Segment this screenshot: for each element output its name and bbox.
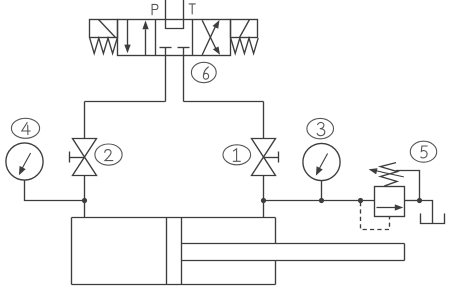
valve 6 centre position: blocked port A	[160, 48, 172, 56]
wire right branch down to valve 1	[263, 102, 265, 140]
wire left cylinder port	[84, 201, 86, 218]
label 5	[410, 141, 436, 162]
relief valve 5 spring	[380, 163, 397, 186]
wire A from valve down	[165, 56, 167, 102]
spring right	[231, 38, 259, 53]
valve 6 left position: arrow down	[124, 20, 130, 53]
relief valve 5 body	[375, 187, 405, 217]
junction dot left	[82, 198, 87, 203]
wire B from valve down	[183, 56, 185, 102]
directional valve 6 body	[118, 20, 231, 56]
pressure gauge 3	[303, 143, 340, 180]
wire gauge 3 down	[321, 181, 323, 201]
shut-off valve 1	[252, 139, 279, 176]
port P line	[165, 0, 167, 29]
junction dot valve 1	[261, 198, 266, 203]
wire left branch down to valve 2	[84, 102, 86, 140]
label 1	[223, 145, 251, 165]
valve 6 right position: crossed arrow up-right	[202, 20, 219, 55]
valve 6 centre position: P-T connector U	[165, 28, 184, 30]
junction dot outlet	[417, 198, 422, 203]
relief valve 5 pilot line (dashed)	[361, 202, 390, 230]
label 3	[307, 118, 334, 138]
wire A horizontal to left branch	[85, 101, 166, 103]
wire valve 2 to junction	[84, 176, 86, 201]
wire valve 1 to junction	[263, 176, 265, 201]
cylinder body	[72, 218, 276, 285]
spring left	[90, 38, 118, 53]
valve 6 right position: crossed arrow down-right	[202, 20, 220, 55]
wire relief valve outlet	[405, 200, 420, 202]
wire spring vent to tank line	[396, 171, 420, 201]
shut-off valve 2	[70, 139, 97, 176]
wire to tank	[420, 201, 433, 224]
relief valve 5 adjustment arrow	[369, 168, 404, 177]
label T	[189, 4, 195, 14]
junction dot pilot	[358, 198, 363, 203]
wire gauge 4 to junction	[25, 180, 85, 200]
label 6	[191, 62, 216, 82]
port T line	[183, 0, 185, 29]
valve 6 centre position: blocked port B	[178, 48, 190, 56]
tank symbol	[421, 214, 445, 224]
valve 6 left position: arrow up	[142, 21, 148, 56]
wire main line to relief valve	[264, 200, 375, 202]
label 4	[11, 118, 39, 138]
wire right cylinder port	[263, 201, 265, 218]
label 2	[95, 144, 122, 165]
cylinder piston	[167, 218, 182, 285]
solenoid right	[231, 20, 258, 38]
cylinder rod	[182, 244, 405, 261]
wire B horizontal to right branch	[184, 101, 264, 103]
label P	[152, 4, 158, 14]
pressure gauge 4	[6, 143, 43, 180]
junction dot gauge 3	[319, 198, 324, 203]
solenoid left	[90, 20, 118, 38]
